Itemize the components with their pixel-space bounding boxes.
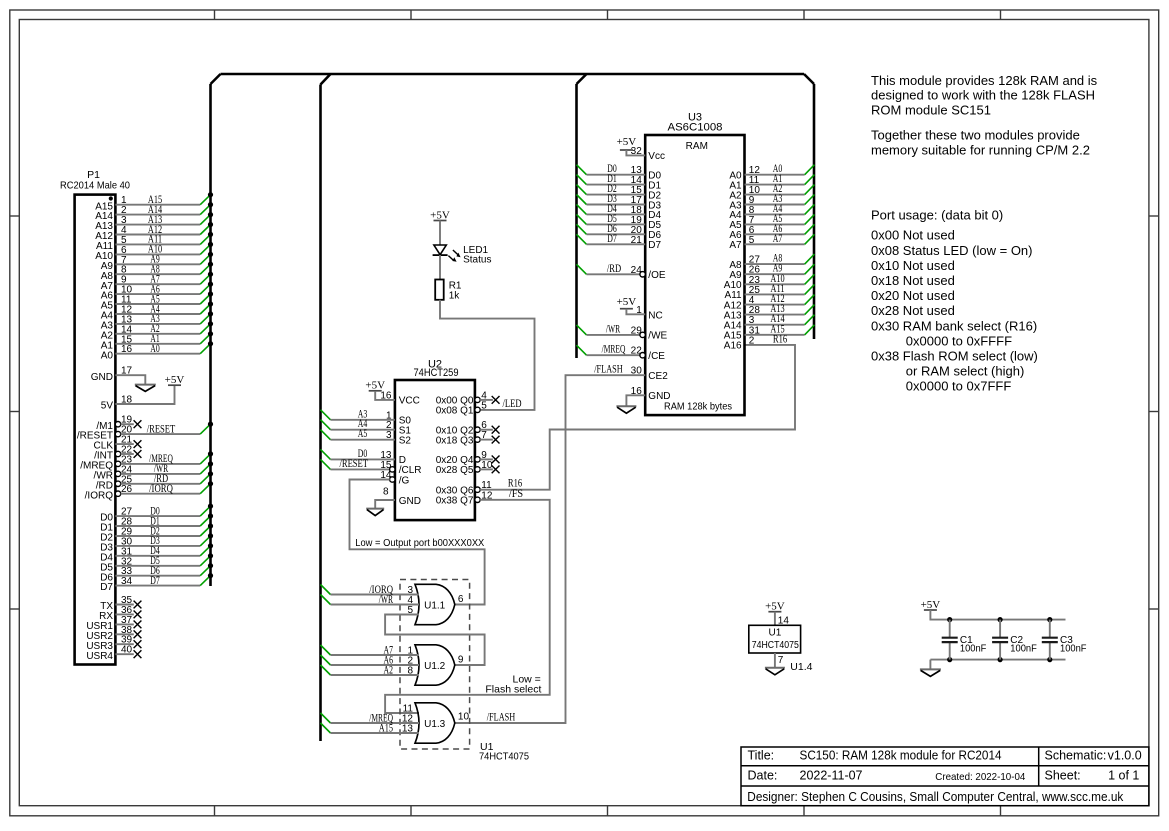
wire A8 from P1 pin 8 [115,262,213,276]
bus entry chamfer to left rail [211,74,221,84]
svg-text:Schematic:: Schematic: [1045,748,1107,762]
svg-text:5: 5 [407,605,413,616]
bus chamfer rail 4 [804,74,814,84]
ground symbol at P1 pin 17 [135,385,156,392]
svg-text:GND: GND [648,391,670,402]
wire A2 from bus to U1.2 pin 8 [321,664,420,676]
wire A15 from bus to U1.3 pin 13 [321,722,420,734]
wire A15 from P1 pin 1 [115,192,213,206]
svg-text:0x0000 to 0xFFFF: 0x0000 to 0xFFFF [906,333,1012,348]
svg-text:Vcc: Vcc [648,151,665,162]
port usage text block [871,208,1038,394]
U1.3 output pin 10 number and /FLASH label [458,711,515,723]
U2 pin 4 no-connect stub [480,390,493,401]
P1 pin 22 inverted bubble [115,451,120,456]
wire A1 from P1 pin 15 [115,331,213,345]
wire D3 from bus to U3 pin 17 [577,193,646,206]
no-connect cross pin 36 [134,611,142,619]
U2 pin 9 no-connect stub [480,450,493,461]
svg-text:/RD: /RD [607,263,621,275]
svg-text:Low = Output port b00XXX0XX: Low = Output port b00XXX0XX [355,537,484,549]
svg-text:SC150: RAM 128k module for RC2: SC150: RAM 128k module for RC2014 [800,748,1002,762]
svg-text:A15: A15 [379,722,394,734]
svg-text:v1.0.0: v1.0.0 [1108,748,1142,762]
wire A5 from bus to U2 pin 3 S2 [321,428,395,441]
wire U1.1 output to U2 /G (enable loop) [350,480,485,605]
+5V power symbol at U1 pin 14 [765,601,785,613]
wire /MREQ from bus to U3 /CE pin 22 [577,344,643,357]
wire A10 from U3 pin 23 to bus [745,273,815,286]
svg-text:0x30 RAM bank select (R16): 0x30 RAM bank select (R16) [871,318,1037,333]
wire A7 from P1 pin 9 [115,272,213,286]
bus rail 3 (left of U3) [575,84,578,358]
wire A5 from P1 pin 11 [115,291,213,305]
svg-text:0x38 Flash ROM select (low): 0x38 Flash ROM select (low) [871,349,1038,364]
U2 internal pin names [399,396,474,507]
power unit U1 74HCT4075 [749,625,801,653]
U2 pin 6 no-connect stub [480,420,493,431]
P1 pin 37 no-connect stub [115,615,133,626]
svg-text:16: 16 [380,390,392,401]
svg-text:ROM module SC151: ROM module SC151 [871,103,991,118]
svg-text:100nF: 100nF [960,644,987,655]
svg-text:+5V: +5V [165,374,185,386]
svg-text:/FS: /FS [509,488,523,500]
no-connect cross pin 22 [134,450,142,458]
svg-text:1: 1 [636,305,642,316]
wire A12 from P1 pin 4 [115,222,213,236]
+5V power symbol at U2 VCC [365,379,385,391]
RAM U3 AS6C1008 [645,112,744,416]
+5V power symbol at U3 NC pin [617,296,637,309]
bus rail 2 (left of U2 and gates) [319,85,322,742]
wire /IORQ from P1 pin 26 [121,481,213,495]
wire /LED net from R1 to U2 pin 5 [440,300,535,410]
wire D7 from P1 pin 34 [115,573,213,587]
wire R16 from U2 Q6 to U3 A16 [480,345,795,491]
svg-text:RAM: RAM [686,141,708,152]
svg-text:74HCT259: 74HCT259 [414,367,459,379]
wire D3 from P1 pin 30 [115,533,213,547]
or-gate U1.1 [415,584,455,624]
LED LED1 Status [433,245,492,265]
wire A3 from bus to U2 pin 1 S0 [321,408,395,421]
svg-text:16: 16 [631,386,643,397]
wire /RESET from P1 pin 20 [121,422,213,436]
svg-text:U1.4: U1.4 [790,661,812,673]
bus chamfer rail 3 [577,74,587,84]
svg-text:16: 16 [121,344,133,355]
svg-text:/WR: /WR [606,323,621,335]
svg-text:12: 12 [481,490,493,501]
svg-text:0x0000 to 0x7FFF: 0x0000 to 0x7FFF [906,379,1012,394]
or-gate U1.3 [415,703,455,743]
P1 pin 25 inverted bubble [115,481,120,486]
connector P1 RC2014 Male 40 [60,169,130,665]
svg-text:designed to work with the 128k: designed to work with the 128k FLASH [871,88,1095,103]
svg-text:1 of 1: 1 of 1 [1108,769,1139,783]
wire D1 from bus to U3 pin 14 [577,173,646,186]
svg-text:Designer: Stephen C Cousins, S: Designer: Stephen C Cousins, Small Compu… [747,790,1124,804]
ground symbol at U3 pin 16 [616,406,636,413]
no-connect cross pin 39 [134,640,142,648]
P1 pin 38 no-connect stub [115,625,133,636]
wire A5 from U3 pin 7 to bus [745,213,815,226]
svg-text:/MREQ: /MREQ [602,344,626,356]
wire U2 pin 8 GND [375,486,395,508]
svg-text:0x28 Q5: 0x28 Q5 [436,465,474,476]
svg-text:/IORQ: /IORQ [149,483,173,495]
notes text block top right [871,73,1098,158]
wire A7 from U3 pin 5 to bus [745,233,815,246]
svg-text:40: 40 [121,645,133,656]
wire D1 from P1 pin 28 [115,513,213,527]
wire A14 from U3 pin 3 to bus [745,313,815,326]
wire A10 from P1 pin 6 [115,242,213,256]
bus wire top horizontal run [221,73,805,76]
wire D0 from bus to U2 pin 13 D [321,448,395,461]
svg-text:or RAM select (high): or RAM select (high) [906,364,1024,379]
ground symbol at U2 pin 8 [366,509,384,516]
svg-text:R16: R16 [773,333,788,345]
wire /RESET from bus to U2 pin 15 /CLR [321,458,392,471]
svg-text:2: 2 [749,335,755,346]
wire +5V to U3 pin 1 NC [626,305,645,316]
wire /WR from bus to U3 /WE pin 29 [577,323,643,336]
svg-text:100nF: 100nF [1010,644,1037,655]
wire /WR from P1 pin 24 [121,461,213,475]
U3 /OE inverted bubble [640,272,645,277]
wire D2 from bus to U3 pin 15 [577,183,646,196]
wire /RD from P1 pin 25 [121,471,213,485]
svg-text:+5V: +5V [921,599,941,611]
wire U1.2 output 9 feedback to U1.1 pin 5 [385,605,485,665]
svg-text:memory suitable for running CP: memory suitable for running CP/M 2.2 [871,143,1090,158]
capacitor C2 100nF [992,620,1037,660]
wire D4 from P1 pin 31 [115,543,213,557]
no-connect cross U2 pin 10 [492,466,500,474]
junction dots on ground cap rail [947,657,1052,662]
wire D0 from bus to U3 pin 13 [577,163,646,176]
wire A11 from P1 pin 5 [115,232,213,246]
P1 pin 22 no-connect stub [121,445,134,456]
no-connect cross pin 40 [134,650,142,658]
wire /MREQ from P1 pin 23 [121,451,213,465]
svg-text:10: 10 [481,460,493,471]
U2 output bubble pin 12 [475,497,480,502]
svg-text:Created: 2022-10-04: Created: 2022-10-04 [935,771,1025,783]
svg-text:/RESET: /RESET [340,458,369,470]
wire D0 from P1 pin 27 [115,504,213,518]
or-gate U1.2 [415,645,455,685]
P1 pin 26 inverted bubble [115,491,120,496]
svg-text:RC2014 Male 40: RC2014 Male 40 [60,179,130,191]
svg-text:0x18 Not used: 0x18 Not used [871,273,955,288]
P1 pin 39 no-connect stub [115,635,133,646]
svg-text:/G: /G [399,475,410,486]
wire D5 from bus to U3 pin 19 [577,213,646,226]
svg-text:D7: D7 [607,233,617,245]
svg-text:U1.1: U1.1 [424,600,446,611]
ground symbol at U1 pin 7 [765,668,785,675]
svg-text:5V: 5V [101,401,114,412]
svg-text:CE2: CE2 [648,371,668,382]
U2 /G inverted bubble [390,477,395,482]
svg-text:7: 7 [778,655,784,666]
no-connect cross pin 19 [134,420,142,428]
U2 pin 7 no-connect stub [480,430,493,441]
wire A0 from P1 pin 16 [115,341,213,355]
wire A8 from U3 pin 27 to bus [745,253,815,266]
P1 pin 20 inverted bubble [115,431,120,436]
U2 output bubble pin 5 [475,407,480,412]
svg-text:NC: NC [648,310,662,321]
P1 pin 19 inverted bubble [115,422,120,427]
svg-text:21: 21 [631,235,643,246]
wire A3 from P1 pin 13 [115,311,213,325]
no-connect cross U2 pin 7 [492,436,500,444]
svg-text:GND: GND [399,496,421,507]
wire A3 from U3 pin 9 to bus [745,193,815,206]
svg-text:5: 5 [481,400,487,411]
svg-text:/LED: /LED [503,398,522,410]
svg-text:D7: D7 [648,240,661,251]
svg-text:7: 7 [481,430,487,441]
svg-text:0x00 Not used: 0x00 Not used [871,228,955,243]
no-connect cross U2 pin 9 [492,456,500,464]
wire D7 from bus to U3 pin 21 [577,233,646,246]
svg-text:U1.3: U1.3 [424,719,446,730]
svg-text:8: 8 [383,486,389,497]
wire +5V rail to caps [930,610,1065,620]
wire A2 from U3 pin 10 to bus [745,183,815,196]
wire D4 from bus to U3 pin 18 [577,203,646,216]
svg-text:AS6C1008: AS6C1008 [668,122,723,134]
wire /FS from U2 Q7 to U1.3 input [385,488,550,713]
U3 pin 2 A16 number and R16 label [749,333,788,346]
wire D2 from P1 pin 29 [115,523,213,537]
svg-text:Sheet:: Sheet: [1045,769,1081,783]
svg-text:17: 17 [121,366,133,377]
wire A11 from U3 pin 25 to bus [745,283,815,296]
junction dots on +5V cap rail [947,617,1052,622]
+5V power symbol at P1 pin 18 [165,374,185,386]
svg-text:/RESET: /RESET [147,423,176,435]
U3 internal pin names [648,151,742,402]
svg-text:A0: A0 [150,343,160,355]
P1 pin 17 GND wire [91,366,146,385]
title block [741,747,1149,806]
wire LED1 cathode to R1 [439,255,441,279]
svg-text:A16: A16 [724,341,742,352]
svg-text:0x08 Status LED (low = On): 0x08 Status LED (low = On) [871,243,1033,258]
wire A9 from U3 pin 26 to bus [745,263,815,276]
wire A6 from U3 pin 6 to bus [745,223,815,236]
wire A14 from P1 pin 2 [115,202,213,216]
svg-text:18: 18 [121,395,133,406]
svg-text:0x20 Not used: 0x20 Not used [871,288,955,303]
wire A0 from U3 pin 12 to bus [745,163,815,176]
P1 pin 19 no-connect stub [121,415,134,426]
svg-text:USR4: USR4 [86,651,113,662]
svg-text:1k: 1k [449,290,461,301]
+5V power symbol at U3 Vcc [617,136,637,150]
wire A1 from U3 pin 11 to bus [745,173,815,186]
wire U1 pin 7 to ground [775,653,784,668]
svg-text:0x38 Q7: 0x38 Q7 [436,496,474,507]
capacitor C3 100nF [1042,620,1087,660]
latch U2 74HCT259 [395,358,475,520]
wire A7 from bus to U1.2 pin 1 [321,644,420,656]
svg-text:+5V: +5V [765,601,785,613]
svg-text:A7: A7 [729,240,742,251]
wire A2 from P1 pin 14 [115,321,213,335]
svg-text:Title:: Title: [748,748,775,762]
P1 pin 21 no-connect stub [115,435,133,446]
svg-text:5: 5 [749,235,755,246]
svg-text:32: 32 [631,146,643,157]
P1 pin 24 inverted bubble [115,471,120,476]
P1 pin 40 no-connect stub [115,645,133,656]
svg-text:A2: A2 [384,664,394,676]
U2 pin 5 number and /LED label [481,398,521,411]
wire D6 from P1 pin 33 [115,563,213,577]
U2 output bubble pin 11 [475,487,480,492]
wire A6 from bus to U1.2 pin 2 [321,654,420,666]
wire /FLASH from U1.3 output to U3 CE2 pin 30 [455,364,645,723]
svg-text:D7: D7 [100,582,113,593]
svg-text:/FLASH: /FLASH [594,364,623,376]
svg-text:This module provides 128k RAM: This module provides 128k RAM and is [871,73,1098,88]
svg-text:Date:: Date: [748,769,778,783]
svg-text:8: 8 [407,666,413,677]
svg-text:/FLASH: /FLASH [487,711,516,723]
wire /MREQ from bus to U1.3 pin 12 [321,712,420,724]
svg-text:U1: U1 [769,628,782,639]
wire cap rail to ground symbol [929,660,931,670]
svg-text:GND: GND [91,372,113,383]
U3 /WE inverted bubble [640,332,645,337]
svg-text:/WR: /WR [379,594,394,606]
wire /WR from bus to U1.1 pin 4 [321,594,420,606]
U2 output bubble pin 6 [475,427,480,432]
wire A15 from U3 pin 31 to bus [745,323,815,336]
svg-text:9: 9 [458,655,464,666]
svg-text:74HCT4075: 74HCT4075 [752,640,799,651]
bus chamfer rail 2 [321,74,331,85]
no-connect cross pin 38 [134,630,142,638]
bus rail 4 (right of U3) [813,84,816,339]
dashed outline of U1 74HCT4075 package [400,580,470,750]
svg-text:U1.2: U1.2 [424,661,446,672]
svg-text:VCC: VCC [399,396,420,407]
+5V power symbol above LED1 [430,209,450,221]
no-connect cross pin 35 [134,601,142,609]
P1 pin 36 no-connect stub [115,605,133,616]
U2 output bubble pin 9 [475,457,480,462]
wire A12 from U3 pin 4 to bus [745,293,815,306]
no-connect cross pin 21 [134,440,142,448]
wire D6 from bus to U3 pin 20 [577,223,646,236]
P1 pin 35 no-connect stub [115,595,133,606]
svg-text:/IORQ: /IORQ [85,490,114,501]
wire /IORQ from bus to U1.1 pin 3 [321,584,420,596]
svg-text:0x08 Q1: 0x08 Q1 [436,406,474,417]
svg-text:D7: D7 [150,575,160,587]
svg-text:/OE: /OE [648,270,666,281]
svg-text:0x18 Q3: 0x18 Q3 [436,435,474,446]
no-connect cross pin 37 [134,621,142,629]
svg-text:A7: A7 [773,233,783,245]
wire U3 pin 16 GND [626,386,645,406]
svg-text:2022-11-07: 2022-11-07 [800,769,863,783]
P1 pin 23 inverted bubble [115,461,120,466]
svg-text:+5V: +5V [617,296,637,308]
wire +5V to U3 pin 32 Vcc [626,146,645,157]
note Low = Flash select [485,673,541,695]
wire A9 from P1 pin 7 [115,252,213,266]
capacitor C1 100nF [942,620,987,660]
wire A13 from U3 pin 28 to bus [745,303,815,316]
wire /RD from bus to U3 /OE pin 24 [577,263,643,276]
U3 /CE inverted bubble [640,353,645,358]
U1 package reference labels [479,741,529,762]
svg-text:Port usage: (data bit 0): Port usage: (data bit 0) [871,208,1003,223]
svg-text:100nF: 100nF [1060,644,1087,655]
svg-text:34: 34 [121,576,133,587]
svg-text:Together these two modules pro: Together these two modules provide [871,128,1080,143]
svg-text:A0: A0 [101,350,114,361]
U2 output bubble pin 7 [475,437,480,442]
wire +5V to LED1 anode [439,221,441,246]
svg-text:+5V: +5V [430,209,450,221]
svg-text:6: 6 [458,594,464,605]
wire ground rail under caps [930,659,1065,661]
ground symbol at decoupling caps [920,669,941,676]
svg-text:A5: A5 [358,428,368,440]
+5V power symbol at decoupling caps [921,599,941,611]
U2 output bubble pin 10 [475,467,480,472]
wire A13 from P1 pin 3 [115,212,213,226]
svg-text:10: 10 [458,712,470,723]
svg-text:Status: Status [463,254,491,265]
svg-text:3: 3 [386,430,392,441]
resistor R1 1k [435,280,462,302]
U2 pin 10 no-connect stub [480,460,493,471]
svg-text:/WE: /WE [648,331,667,342]
P1 pin 18 5V wire [101,385,175,411]
no-connect cross U2 pin 6 [492,426,500,434]
wire +5V to U1 pin 14 [775,612,789,627]
U2 /CLR inverted bubble [390,467,395,472]
svg-text:Flash select: Flash select [485,683,541,695]
svg-text:0x10 Not used: 0x10 Not used [871,258,955,273]
no-connect cross U2 pin 4 [492,396,500,404]
wire A4 from P1 pin 12 [115,301,213,315]
wire A4 from bus to U2 pin 2 S1 [321,418,395,431]
wire D5 from P1 pin 32 [115,553,213,567]
wire A6 from P1 pin 10 [115,282,213,296]
wire +5V to U2 pin 16 VCC [375,390,395,401]
svg-text:0x28 Not used: 0x28 Not used [871,303,955,318]
svg-text:26: 26 [121,484,133,495]
bus rail 1 (left of P1) [209,84,212,586]
U2 output bubble pin 4 [475,397,480,402]
svg-text:RAM 128k bytes: RAM 128k bytes [664,402,732,413]
svg-text:74HCT4075: 74HCT4075 [479,750,529,762]
svg-text:S2: S2 [399,436,412,447]
svg-text:30: 30 [631,366,643,377]
